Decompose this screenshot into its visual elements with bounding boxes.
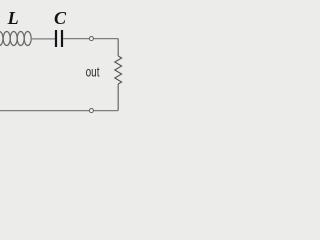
wire right vertical (bottom lead) [117, 84, 119, 111]
inductor L (coil) [0, 32, 31, 46]
wire capacitor to top-right corner [63, 38, 118, 40]
resistor (vertical zigzag) [115, 56, 122, 84]
wire coil to capacitor [31, 38, 55, 40]
wire right vertical (top lead) [117, 39, 119, 56]
svg-text:C: C [54, 8, 67, 28]
svg-text:out: out [86, 64, 100, 79]
node terminal circle top [89, 37, 93, 41]
capacitor C plates [55, 30, 57, 47]
background [0, 0, 127, 140]
svg-text:L: L [7, 8, 19, 28]
wire bottom return [0, 110, 118, 112]
node terminal circle bottom [89, 109, 93, 113]
